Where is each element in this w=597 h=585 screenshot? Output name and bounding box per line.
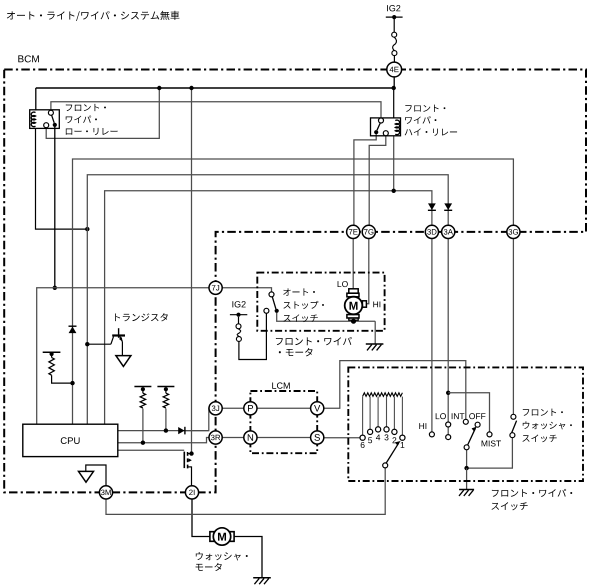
- wire resistor R1 branch: [52, 375, 73, 383]
- diode D1: [69, 326, 77, 333]
- wire 3D to HI contact: [431, 239, 433, 432]
- wiper switch INT contact: [452, 413, 469, 424]
- MOSFET Q2: [184, 452, 192, 469]
- wire transistor base: [87, 337, 113, 345]
- wire 3R to LCM N: [222, 437, 250, 439]
- node LO/MIST junction: [446, 391, 450, 395]
- volume resistor comb / intermittent volume: [360, 393, 405, 468]
- wire washer motor to earth: [234, 537, 262, 578]
- wire R3 down: [165, 409, 167, 431]
- connector 3A: [442, 225, 455, 238]
- wire wiper switch common to earth: [466, 468, 468, 489]
- relay high coil: [395, 120, 399, 134]
- front wiper switch boundary: [348, 367, 583, 481]
- washer motor label: [196, 552, 248, 571]
- relay high box: [371, 118, 401, 136]
- wire CPU line C y190.8 to 3D: [105, 191, 432, 424]
- title: [7, 11, 180, 21]
- wire 3G to washer switch: [512, 239, 514, 415]
- label low relay: [66, 104, 118, 135]
- transistor Q1: [112, 328, 125, 355]
- wire high relay NO to 7G: [369, 136, 386, 226]
- wire R2 down: [142, 409, 144, 443]
- diode D2: [444, 203, 452, 210]
- wire washer switch to common: [467, 438, 513, 468]
- wire IG2 to connector 4E: [393, 19, 395, 63]
- wire LCM V to INT contact: [317, 361, 466, 420]
- wire 7E to wiper motor LO: [352, 239, 354, 290]
- connector 2I: [185, 486, 198, 499]
- wire CPU line A y159 to 3G: [73, 159, 514, 424]
- wire power bus y88: [36, 87, 394, 89]
- wire LO link: [447, 427, 449, 434]
- wire auto-stop common to motor low side: [277, 313, 376, 321]
- connector 4E: [387, 62, 402, 77]
- wiper switch HI contact: [419, 423, 434, 437]
- wire LCM S to volume contact 6: [317, 437, 360, 439]
- node base junction: [85, 342, 89, 346]
- front wiper motor boundary: [257, 273, 384, 331]
- wire low relay common down: [54, 127, 56, 288]
- wiper switch OFF contact: [469, 413, 485, 427]
- wire relay commons bus y101.7: [51, 102, 381, 119]
- ground arrow 3M: [79, 471, 94, 482]
- node coil-base junction: [85, 227, 89, 231]
- label LO on motor: [338, 281, 348, 287]
- BCM boundary: [4, 70, 586, 493]
- wire OFF arm to common node: [466, 450, 468, 468]
- relay front-wiper-low box: [30, 110, 60, 129]
- wire 3M to ground arrow: [86, 465, 106, 486]
- connector 3R: [209, 431, 222, 444]
- label auto-stop switch: [283, 288, 324, 322]
- wire MOSFET drain node: [189, 451, 193, 455]
- wiper switch MIST contact: [482, 432, 501, 447]
- circuit breaker CB1: [392, 32, 397, 55]
- wire high relay common to 7E: [354, 134, 376, 226]
- wire motor minus: [353, 319, 355, 321]
- node power-NO junction: [157, 86, 161, 90]
- earth ground wiper switch: [459, 490, 474, 496]
- node R1 / line A junction: [70, 381, 74, 385]
- connector P: [244, 402, 257, 415]
- node power junction x191.5: [189, 86, 193, 90]
- label LCM: [272, 382, 290, 388]
- relay high contact NO: [383, 131, 388, 136]
- connector N: [244, 431, 257, 444]
- connector S: [311, 431, 324, 444]
- wire LCM N to S: [250, 437, 317, 439]
- wire 7J line: [37, 288, 272, 424]
- wire motor to earth: [374, 321, 376, 344]
- node 4E power junction: [392, 86, 396, 90]
- washer switch label: [522, 409, 572, 443]
- connector 7E: [347, 225, 360, 238]
- connector 3D: [425, 225, 438, 238]
- node high coil / line C junction: [392, 189, 396, 193]
- relay low contact NO: [44, 123, 49, 128]
- wire power bus to low relay coil: [35, 88, 37, 111]
- wire 3J to LCM P: [222, 407, 250, 409]
- wire 4E to power node: [393, 77, 395, 88]
- diode D3: [428, 203, 436, 210]
- wire CPU line B y174.8 to 3A: [87, 175, 448, 424]
- resistor R2: [134, 387, 151, 409]
- node R2 / out2 junction: [141, 441, 145, 445]
- wire MIST branch: [448, 393, 489, 432]
- wire low relay NO to power bus: [46, 88, 159, 138]
- relay low contact common: [48, 110, 57, 127]
- wire high relay coil down: [393, 88, 395, 191]
- wire 2I to washer motor: [192, 499, 210, 536]
- circuit breaker CB2: [236, 324, 241, 342]
- power source IG2 (second): [230, 301, 247, 317]
- ground arrow transistor: [116, 356, 131, 367]
- wire IG2-2 feed: [238, 317, 240, 324]
- wiper switch label: [491, 489, 572, 510]
- relay low coil: [31, 112, 35, 126]
- LCM boundary: [250, 391, 317, 453]
- resistor R1: [43, 352, 61, 375]
- node low common / 7J junction: [53, 286, 57, 290]
- wiper switch moving arm: [464, 426, 477, 450]
- auto-stop switch: [264, 292, 279, 313]
- wiper motor M1: [345, 289, 367, 320]
- washer switch SW2: [510, 414, 517, 437]
- washer motor M2: [210, 528, 234, 545]
- diode D4: [178, 427, 185, 435]
- wire CPU out1 to 3J: [118, 408, 216, 430]
- node wiper switch common: [464, 466, 468, 470]
- relay high contact common: [374, 118, 383, 134]
- CPU box U1: [23, 424, 118, 456]
- resistor R3: [157, 387, 174, 409]
- earth ground washer motor: [253, 578, 271, 584]
- wire CPU out2 to 3R: [118, 438, 216, 443]
- wire auto-stop NC to IG2 breaker: [239, 313, 267, 359]
- wiper switch LO contact: [436, 413, 451, 439]
- node motor minus junction: [351, 319, 356, 324]
- label BCM: [18, 55, 39, 62]
- wire low relay coil to transistor base line: [36, 128, 88, 229]
- connector 7J: [209, 281, 222, 294]
- label high relay: [405, 105, 457, 136]
- power source IG2 (top): [386, 5, 403, 19]
- wire LCM P to V: [250, 407, 317, 409]
- wire 7G to wiper motor HI: [367, 239, 369, 304]
- node R3 / out1 junction: [164, 428, 168, 432]
- label front wiper motor: [276, 337, 352, 356]
- wire 3M to wiper volume arm: [106, 468, 385, 514]
- connector 3J: [209, 402, 222, 415]
- transistor label: [115, 313, 168, 321]
- connector 3M: [99, 486, 112, 499]
- earth ground motor: [366, 344, 384, 350]
- connector V: [311, 402, 324, 415]
- wire MOSFET source to 2I: [190, 467, 192, 486]
- connector 7G: [362, 225, 375, 238]
- label HI on motor: [373, 301, 380, 307]
- wire 3A to LO contact: [447, 239, 449, 422]
- wire CPU out3 gate: [118, 449, 184, 451]
- connector 3G: [507, 225, 520, 238]
- wire long vertical x191.5: [191, 88, 193, 454]
